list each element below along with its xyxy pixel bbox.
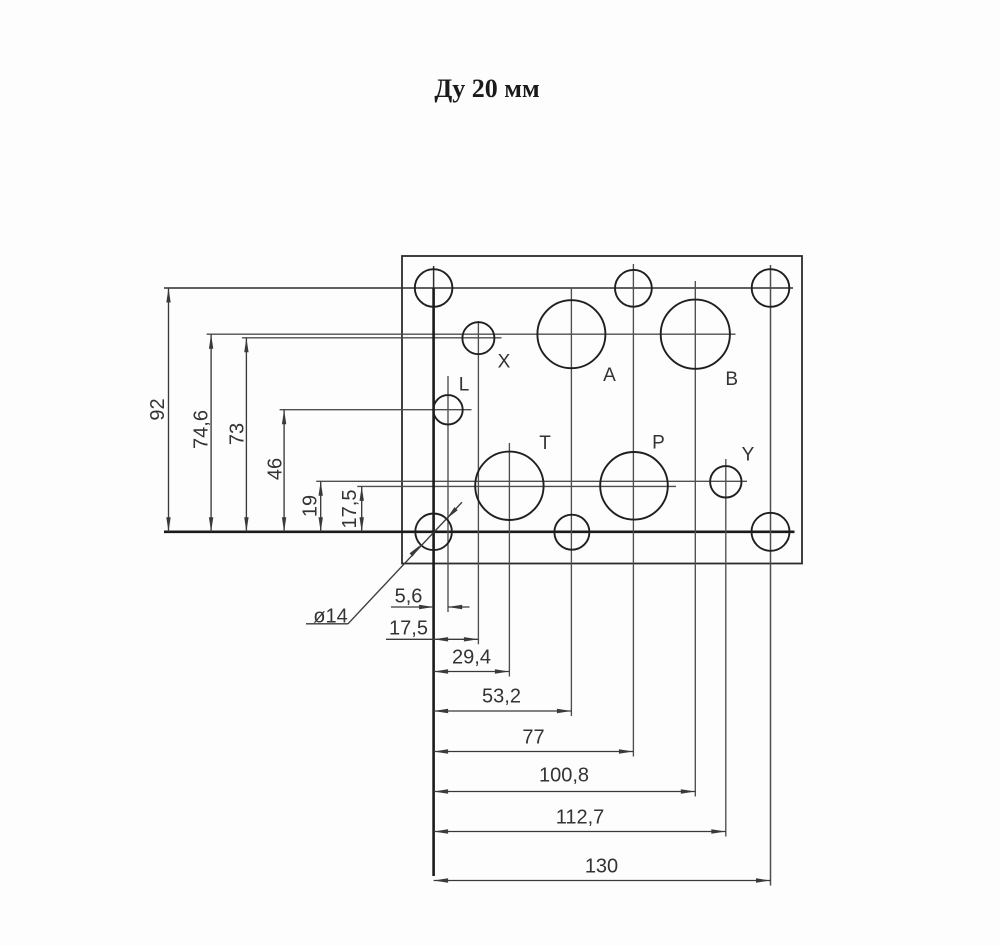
top mounting holes centerline y=288 xyxy=(164,287,793,289)
top-mid / P centerline extension x=633.4 xyxy=(632,264,634,757)
svg-text:92: 92 xyxy=(147,398,169,420)
X centerline extension x=478.4 xyxy=(477,321,479,644)
dimension 77 (horizontal) xyxy=(434,751,634,753)
plate outline xyxy=(402,256,802,564)
extension line 46 through L center xyxy=(280,409,472,411)
dimension 29,4 (horizontal) xyxy=(434,671,510,673)
svg-text:17,5: 17,5 xyxy=(339,490,361,529)
extension line 74,6 through A,B centers xyxy=(207,333,736,335)
dimension 46 (vertical) xyxy=(283,410,285,532)
Y centerline extension x=725.8 xyxy=(725,459,727,837)
svg-text:74,6: 74,6 xyxy=(191,410,213,449)
svg-text:19: 19 xyxy=(300,495,322,517)
dimension 112,7 (horizontal) xyxy=(434,831,726,833)
L centerline extension x=448 xyxy=(447,376,449,612)
port Y xyxy=(710,466,741,497)
extension line 17,5 through T,P centers xyxy=(357,485,676,487)
bottom mounting holes centerline y=532 (bold) xyxy=(164,530,795,533)
dimension 17,5 (horizontal) xyxy=(386,638,478,640)
B centerline extension x=695.3 xyxy=(694,281,696,797)
left holes centerline / dim baseline x=433.6 (bold) xyxy=(432,288,435,876)
svg-text:Y: Y xyxy=(742,445,755,466)
svg-text:100,8: 100,8 xyxy=(539,765,589,787)
port A xyxy=(537,300,605,368)
T centerline extension x=509.4 xyxy=(508,443,510,677)
mounting hole top-left xyxy=(415,269,453,307)
svg-text:53,2: 53,2 xyxy=(482,686,521,708)
svg-text:130: 130 xyxy=(585,856,618,878)
dimension 74,6 (vertical) xyxy=(210,334,212,532)
A / bottom-mid centerline extension x=571.4 xyxy=(570,288,572,716)
leader ø14 to bottom-left mounting hole xyxy=(306,623,348,625)
bottom middle hole xyxy=(554,515,589,550)
svg-text:Ду 20 мм: Ду 20 мм xyxy=(434,74,539,103)
svg-text:112,7: 112,7 xyxy=(556,807,605,829)
dimension 53,2 (horizontal) xyxy=(434,710,572,712)
dimension 17,5 (vertical) xyxy=(361,486,363,531)
svg-text:73: 73 xyxy=(227,423,249,445)
svg-text:ø14: ø14 xyxy=(313,606,347,628)
port P xyxy=(600,452,668,520)
mounting hole bottom-left (ø14) xyxy=(415,514,452,551)
port T xyxy=(475,452,543,520)
top middle hole xyxy=(615,270,652,307)
dimension 100,8 (horizontal) xyxy=(434,791,696,793)
svg-text:P: P xyxy=(652,433,665,454)
svg-text:T: T xyxy=(539,433,551,454)
svg-text:X: X xyxy=(498,352,511,373)
svg-text:17,5: 17,5 xyxy=(389,618,428,640)
extension line 73 through X center xyxy=(242,337,502,339)
mounting hole top-right xyxy=(752,269,790,307)
extension line 19 through Y center xyxy=(316,480,747,482)
top-left hole centerline overshoot x=433.6 xyxy=(433,266,435,288)
svg-text:77: 77 xyxy=(522,727,544,749)
svg-text:5,6: 5,6 xyxy=(395,586,423,608)
svg-text:29,4: 29,4 xyxy=(452,647,491,669)
dimension 92 (vertical) xyxy=(168,288,170,532)
dimension 73 (vertical) xyxy=(245,338,247,532)
right holes centerline extension x=770.5 xyxy=(770,265,772,886)
svg-text:46: 46 xyxy=(265,458,287,480)
svg-text:A: A xyxy=(603,365,616,386)
port L xyxy=(433,395,462,424)
svg-text:L: L xyxy=(459,375,470,396)
port X xyxy=(462,322,494,354)
port B xyxy=(661,300,730,369)
dimension 5,6 (horizontal, outside arrows) xyxy=(391,606,434,608)
mounting hole bottom-right xyxy=(752,513,790,551)
svg-text:B: B xyxy=(725,369,738,390)
dimension 130 (horizontal) xyxy=(434,880,771,882)
dimension 19 (vertical) xyxy=(320,481,322,532)
